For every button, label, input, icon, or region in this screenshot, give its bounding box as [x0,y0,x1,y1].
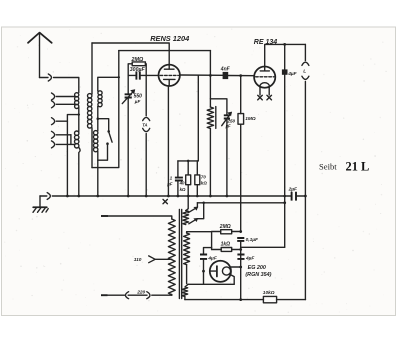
ground bus with plug connector [40,193,305,200]
wire H2 branch to coil L4 top [98,76,120,91]
svg-text:300µF: 300µF [130,67,146,73]
wire T5 to coil L2 [56,143,75,145]
wire link L1/L2 junction to ground bus [67,113,80,196]
svg-text:(RGN 354): (RGN 354) [245,272,271,278]
wire screen divider drop [197,75,199,161]
title Seibt 21 L [319,160,369,174]
capacitor C9 4uF left [200,255,218,285]
RE134 filament leads and X marks [258,87,272,100]
svg-text:µF: µF [166,181,173,186]
bottom HT bus [185,298,306,301]
node: bus dot under coil L5 [96,195,99,198]
wire coil L3 bottom U-loop to H2 riser [92,51,119,168]
tube V1 RENS 1204 [150,34,189,86]
terminal T5 [52,141,55,148]
wire T1 to coil L1 [56,96,75,98]
wire bias node to 4uF left [204,248,212,255]
secondary S1 (heater winding) [183,211,189,225]
svg-text:TA: TA [142,122,147,127]
svg-text:1kΩ: 1kΩ [221,242,231,248]
ground symbol [33,196,48,212]
svg-text:2MΩ: 2MΩ [131,57,144,63]
mains 220V lead with plugs [101,289,172,298]
coil L4 (detector grid coil) [97,91,103,131]
transformer core [179,210,181,299]
svg-text:40: 40 [179,181,185,186]
svg-text:110: 110 [134,257,142,263]
tube V2 RE134 [254,39,277,88]
wire T4 [56,134,71,136]
svg-text:220: 220 [136,289,145,295]
jack TA (pickup) [142,75,149,197]
svg-text:70: 70 [201,175,206,180]
node anode junction on HT line [231,266,242,269]
resistor R6 2MOhm (bias) [212,224,243,234]
wire heater winding top to ground bus [186,196,188,211]
secondary S2 (HV winding) [184,233,190,284]
wire H1 (RENS anode to coil L3) [92,43,169,65]
svg-text:0,1µF: 0,1µF [246,237,259,243]
svg-text:4µF: 4µF [245,255,255,261]
switch S1 (band switch) [98,119,112,161]
coil L3 (RENS anode / feedback coil) [88,43,93,168]
link wire T4-T5 [70,135,72,145]
svg-text:4µF: 4µF [207,255,217,261]
capacitor C7 1uF [166,161,183,198]
wire H2 (coil L3 return to RE134 grid feed) [119,50,211,52]
wire antenna to coil, with plug connector [40,74,79,93]
mains 110V tap [134,256,172,263]
svg-text:10kΩ: 10kΩ [263,290,275,296]
capacitor C3 4nF (coupling, block) [220,67,231,80]
svg-text:µF: µF [134,99,141,104]
terminal T1 [52,93,55,100]
svg-text:kΩ: kΩ [201,180,207,185]
node junction H2 drop [209,51,212,107]
resistor R2 (zigzag with bar) [207,107,216,198]
capacitor C10 4uF right [237,255,255,262]
wire RENS cathode to ground bus [167,86,170,197]
resistor R7 1kOhm (bias) [212,242,243,252]
svg-text:µF: µF [225,123,231,128]
terminal T4 [52,131,55,138]
tube V3 EG200 rectifier [210,261,272,282]
svg-text:1MΩ: 1MΩ [245,116,256,122]
svg-text:EG 200: EG 200 [248,265,266,271]
wire 0.1uF loop to rail [241,246,285,248]
svg-text:21 L: 21 L [346,160,370,174]
svg-text:kΩ: kΩ [180,187,186,192]
coil L2 (antenna primary bottom) [75,131,81,196]
svg-text:2µF: 2µF [288,186,298,192]
jack L (loudspeaker) [302,44,309,299]
capacitor C5 4uF (block, anode) [282,44,298,247]
svg-text:4nF: 4nF [220,67,231,73]
coil L1 (antenna primary top) [75,93,79,132]
resistor R1 2MOhm (grid leak RENS) [128,57,146,75]
capacitor C6 2uF (on bus) [288,186,298,200]
capacitor C2 550pF variable (tuning) [122,75,142,197]
svg-text:RENS 1204: RENS 1204 [150,34,189,43]
heater rail 2 [197,201,286,204]
antenna [28,33,52,78]
svg-text:1: 1 [170,176,173,181]
tap arrow 2 to rail2 [189,203,204,224]
secondary S3 (rectifier filament winding) [182,284,188,299]
divider bus (40k/70k top) [178,160,198,163]
wire RENS screen/output line to RE134 grid [180,74,254,77]
terminal T3 [52,118,55,125]
svg-text:4µF: 4µF [287,71,297,77]
resistor R8 10kOhm [263,290,277,303]
wire T2 to coil L1 [56,103,75,105]
wire HV top to bias network [187,232,212,250]
resistor R5 70kOhm [195,161,208,197]
node: bus right dots [283,195,306,198]
power transformer T1 primary [101,216,175,295]
terminal T2 [52,101,55,108]
capacitor C1 300pF (grid cap) [128,67,159,80]
tap arrow 1 to rail2 [188,203,198,213]
resistor R3 1MOhm (grid leak RE134) [238,74,256,232]
resistor R4 40kOhm [179,161,191,198]
wire RE134 anode rail [265,43,306,67]
svg-text:Seibt: Seibt [319,161,337,171]
coil L5 (wave band coil) [94,131,98,196]
wire T3 to bus link [56,120,67,122]
capacitor C8 0.1uF [237,237,259,299]
node: ground bus junction dots left [66,195,80,198]
capacitor C4 250pF variable [210,99,235,198]
svg-text:L: L [303,69,306,75]
svg-text:2MΩ: 2MΩ [219,224,231,230]
heater X mark [163,199,167,203]
wire EG200 anode loop [188,274,234,284]
